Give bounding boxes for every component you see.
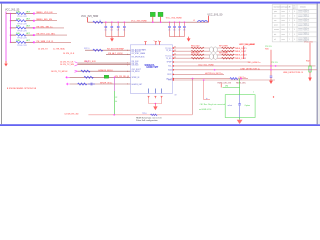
wire TMDS pair2a: [173, 54, 234, 56]
svg-text:ITE_SMB_CLK #5: ITE_SMB_CLK #5: [36, 41, 54, 43]
wire (row 2 net stub): [35, 20, 57, 22]
junction (bus row 1): [10, 13, 12, 15]
wire row C2 y=64.7: [78, 64, 131, 66]
svg-text:R22 0: R22 0: [84, 48, 90, 50]
junction (rail cap 6): [174, 21, 176, 23]
svg-text:43: 43: [174, 50, 176, 52]
wire (row 2 right lead): [25, 20, 33, 22]
net-tie NT2 (green): [158, 12, 163, 22]
choke T1 winding right: [214, 47, 218, 52]
svg-text:14 I2S_CLK: 14 I2S_CLK: [63, 53, 75, 55]
resistor R21 on rail: [93, 21, 103, 23]
svg-text:conn: conn: [282, 29, 285, 31]
IC U1 box (HDMI transmitter): [130, 45, 172, 94]
wire (row 5 left lead): [11, 41, 17, 43]
capacitor C4 104: [123, 22, 126, 36]
junction (x=203.7 HPD row): [203, 79, 205, 81]
wire vertical x=245.7 (5V pull-up): [243, 46, 245, 59]
capacitor C8 104: [183, 22, 186, 36]
svg-text:TMDS_D1+ 8: TMDS_D1+ 8: [235, 55, 248, 57]
svg-text:4k: 4k: [115, 101, 117, 103]
svg-text:conn: conn: [282, 20, 285, 22]
wire row E y=77.3: [70, 76, 131, 78]
junction (x=271 SCL row): [270, 65, 272, 67]
bus entry bracket (row D): [75, 70, 78, 72]
svg-text:1: 1: [253, 91, 254, 93]
power bus vertical wire (left, x=10.5): [10, 14, 12, 43]
svg-text:aux: aux: [274, 20, 277, 22]
wire vertical x=271: [270, 50, 272, 76]
svg-text:1: 1: [289, 11, 290, 13]
svg-text:spare: spare: [274, 24, 278, 27]
resistor R24 (row E): [84, 76, 93, 78]
wire green horizontal y=87.5: [223, 87, 240, 89]
svg-text:LINE_DETECTOR 1a: LINE_DETECTOR 1a: [240, 68, 260, 70]
svg-text:5V0_HDMI 1a: 5V0_HDMI 1a: [248, 62, 261, 64]
resistor RP2a term: [222, 54, 235, 56]
svg-text:RN2 0402: RN2 0402: [191, 52, 200, 54]
svg-text:res: res: [293, 5, 295, 8]
wire (U1 bottom ground U-link): [149, 98, 162, 103]
power arrow (far right down): [308, 78, 312, 82]
svg-text:14 I2S_TX_MCLK: 14 I2S_TX_MCLK: [51, 71, 68, 73]
svg-text:1: 1: [289, 39, 290, 41]
junction (row E x=114.5): [114, 77, 116, 79]
svg-text:alt: alt: [274, 38, 276, 41]
pin dot (CEC): [173, 78, 174, 79]
svg-text:mod name: mod name: [274, 7, 281, 9]
svg-text:PANEL_VDD_EN: PANEL_VDD_EN: [36, 11, 53, 14]
wire (option box to ground): [239, 118, 241, 120]
wire TMDS pair2b: [173, 57, 234, 59]
wire (cap group bottom rail): [106, 36, 125, 38]
svg-text:CEC Res: Ring if not connected: CEC Res: Ring if not connected: [200, 103, 225, 106]
svg-text:HDMI TMT: HDMI TMT: [147, 66, 159, 69]
svg-text:0: 0: [294, 34, 295, 36]
ground arrow (left bus bottom): [4, 61, 8, 66]
svg-text:SCL: SCL: [168, 66, 171, 68]
svg-text:5: 5: [244, 55, 245, 57]
wire RST row y=74.4: [173, 73, 224, 75]
junction (x=271 SDA row): [270, 69, 272, 71]
svg-text:ITE_RST_LCD_BKL: ITE_RST_LCD_BKL: [36, 34, 56, 36]
pin dot (HPD): [173, 79, 174, 80]
junction (bus row 4): [10, 34, 12, 36]
wire SPDIF row y=62: [173, 61, 250, 63]
choke T2 winding right: [214, 54, 218, 60]
svg-text:TMDS_D2+ 5: TMDS_D2+ 5: [235, 48, 248, 50]
svg-text:C6: C6: [173, 30, 175, 32]
svg-text:I2S_RX_SD #4: I2S_RX_SD #4: [115, 76, 130, 78]
svg-text:conn type: conn type: [281, 6, 288, 9]
net-tie NT3 (row E green): [104, 75, 109, 78]
arrow (row F input): [67, 83, 71, 85]
bus entry bracket (row C): [75, 62, 78, 66]
svg-text:conn: conn: [282, 39, 285, 41]
resistor R15: [16, 41, 26, 43]
wire (row 3 right lead): [25, 27, 33, 29]
svg-text:dflt: dflt: [289, 6, 292, 9]
pin stub (U1 top x=145.5): [144, 42, 146, 45]
pin dot (pair1a): [173, 47, 174, 48]
pin stub (U1 bottom outside x=161.6): [161, 96, 163, 98]
svg-text:RN1 0402: RN1 0402: [191, 45, 200, 47]
pin stub (U1 bottom outside x=148.6): [148, 96, 150, 98]
svg-text:19: 19: [175, 95, 177, 97]
net label block (row C, two lines): [60, 61, 74, 65]
capacitor C6 104: [173, 22, 176, 36]
pin square (row 3): [33, 27, 35, 29]
revision table remarks text (blue): [298, 9, 310, 43]
wire (rail right riser): [208, 16, 210, 22]
wire vertical x=221.2 (CEC RX): [220, 84, 222, 88]
svg-text:uchst: uchst: [228, 104, 233, 107]
pin stub (U1 bottom outside x=155.4): [154, 96, 156, 98]
resistor R13: [16, 27, 26, 29]
wire I2C SDA row y=69.8: [173, 69, 317, 71]
svg-text:4K7: 4K7: [26, 26, 30, 28]
svg-text:L1: L1: [193, 20, 195, 22]
wire (row 2 left lead): [11, 20, 17, 22]
sheet right margin shading: [318, 4, 320, 125]
capacitor C9 (row F): [88, 83, 95, 86]
svg-text:I2S_MCLK: I2S_MCLK: [132, 71, 141, 73]
junction (ground U-link): [155, 103, 157, 105]
wire (CEC after resistor): [238, 78, 248, 80]
svg-text:C7: C7: [178, 30, 180, 32]
svg-text:LINE_DETECTION #4: LINE_DETECTION #4: [283, 72, 304, 74]
svg-text:14 I2S_RX_SD: 14 I2S_RX_SD: [64, 114, 79, 116]
svg-text:I2S_ALT_LRCK: I2S_ALT_LRCK: [108, 52, 123, 55]
wire (row 3 left lead): [11, 27, 17, 29]
capacitor C2 104: [110, 22, 113, 36]
resistor RP1b term: [222, 50, 235, 52]
pin square (row 4): [33, 34, 35, 36]
pin dot (pair1b): [173, 51, 174, 52]
svg-text:42: 42: [174, 47, 176, 49]
junction (bus row 3): [10, 27, 12, 29]
svg-text:C3: C3: [117, 30, 119, 32]
svg-text:0: 0: [294, 39, 295, 41]
ground (cap group): [110, 37, 114, 42]
svg-text:remarks: remarks: [300, 6, 306, 9]
svg-text:I2C2_SCL_HDMI: I2C2_SCL_HDMI: [198, 65, 214, 67]
resistor RN2a series: [191, 54, 204, 56]
junction (SDA row x=214.6): [214, 69, 216, 71]
ground (cap group): [187, 37, 191, 42]
junction (rail cap 7): [179, 21, 181, 23]
junction (SCL row x=275.6): [275, 65, 277, 67]
svg-text:1: 1: [289, 34, 290, 36]
pin stub (U1 top x=159.6): [158, 42, 160, 45]
svg-text:conn: conn: [282, 11, 285, 13]
junction (bottom wire x=114.2): [113, 114, 115, 116]
wire (row 1 left lead): [11, 13, 17, 15]
svg-text:B I2S RECEIVER OPTION 1V8: B I2S RECEIVER OPTION 1V8: [7, 88, 37, 90]
svg-text:0: 0: [294, 11, 295, 13]
pin dot (RST): [173, 74, 174, 75]
svg-text:44: 44: [174, 54, 176, 56]
svg-text:VCC_3V3_S0: VCC_3V3_S0: [207, 13, 223, 16]
wire (row 5 net stub): [35, 41, 71, 43]
svg-text:conn: conn: [282, 34, 285, 36]
pin square (row 5): [33, 41, 35, 43]
wire vertical x=192.3 (HPD drop): [191, 79, 193, 115]
svg-text:v: v: [158, 40, 159, 42]
svg-text:C4: C4: [123, 30, 125, 32]
resistor RN1a series: [191, 47, 204, 49]
junction (tie 2): [160, 21, 162, 23]
svg-text:conn: conn: [282, 16, 285, 18]
arrow (row E input): [66, 76, 70, 78]
pin dot (pair2b): [173, 58, 174, 59]
ground (U1 bottom): [153, 104, 157, 111]
svg-text:5: 5: [244, 48, 245, 50]
svg-text:C2: C2: [110, 30, 112, 32]
svg-text:TX_D1-: TX_D1-: [166, 58, 172, 60]
resistor RN1b series: [191, 50, 204, 52]
pin dot (SDA): [173, 69, 174, 70]
svg-text:VCC_3V3_S5W: VCC_3V3_S5W: [81, 15, 99, 18]
power rail wire y=22.2: [88, 21, 209, 23]
revision table header text: [274, 5, 306, 10]
svg-text:tert: tert: [274, 33, 277, 36]
svg-text:HPD: HPD: [168, 80, 172, 82]
svg-text:C8: C8: [183, 30, 185, 32]
svg-text:14 I2S_TX_WS: 14 I2S_TX_WS: [60, 64, 74, 66]
choke T1 winding left: [210, 47, 214, 52]
svg-text:TX_D2-: TX_D2-: [166, 50, 172, 52]
svg-text:RST#: RST#: [167, 74, 171, 76]
svg-text:TP10: TP10: [142, 113, 147, 115]
wire CEC row y=78.6: [173, 78, 230, 80]
net-tie NT1 (green): [150, 12, 155, 22]
svg-text:RX_STBY_WAKE: RX_STBY_WAKE: [132, 52, 146, 55]
pin dot (SCL): [173, 65, 174, 66]
wire (row 4 right lead): [25, 34, 33, 36]
resistor R30 (CEC): [230, 78, 238, 80]
svg-text:SPDIF_IN 1a: SPDIF_IN 1a: [100, 83, 113, 85]
wire HPD row y=80: [173, 79, 275, 81]
junction (CEC x=241): [240, 78, 242, 80]
svg-text:DNI: DNI: [225, 86, 229, 88]
svg-text:1: 1: [289, 16, 290, 18]
pin stub (U1 top x=155.8): [155, 42, 157, 45]
svg-text:Option: Option: [245, 104, 251, 107]
svg-text:tp: tp: [206, 97, 208, 100]
svg-text:R32: R32: [306, 61, 309, 63]
wire row C1 y=63.1: [78, 62, 131, 64]
pin stub (U1 bottom inside x=148.6): [148, 89, 150, 94]
svg-text:RX_BOOTSTRAP: RX_BOOTSTRAP: [107, 48, 124, 51]
svg-text:22: 22: [115, 97, 117, 99]
svg-text:0: 0: [294, 29, 295, 31]
wire TMDS pair1a: [173, 47, 234, 49]
capacitor C3 104: [117, 22, 120, 36]
svg-text:0: 0: [294, 25, 295, 27]
svg-text:SPDIF_IN: SPDIF_IN: [132, 77, 140, 79]
svg-text:pos: pos: [293, 7, 296, 9]
option box (green outline): [225, 95, 255, 118]
wire I2C SCL row y=65.9: [173, 65, 316, 67]
svg-text:14 I2S_TX: 14 I2S_TX: [38, 48, 48, 50]
svg-text:reserve: reserve: [274, 28, 279, 31]
svg-text:VCC_5V0_HDMI: VCC_5V0_HDMI: [166, 17, 182, 19]
note text (CEC res, two green lines): [199, 103, 225, 111]
wire row F y=84: [70, 83, 131, 85]
wire vertical x=203.7 (pink drop): [204, 80, 210, 100]
resistor R22: [93, 49, 103, 51]
junction (tie 1): [152, 21, 154, 23]
resistor RP2b term: [222, 57, 235, 59]
junction (far right SDA row): [309, 69, 311, 71]
fuse F1 (green, far right): [309, 66, 311, 72]
svg-text:27K 1%: 27K 1%: [271, 62, 278, 64]
resistor RP1a term: [222, 47, 235, 49]
svg-text:RX_SPDIF_MCK: RX_SPDIF_MCK: [132, 56, 146, 58]
svg-text:4K7: 4K7: [26, 19, 30, 21]
pin dot (SPDIF): [173, 61, 174, 62]
svg-text:RP1 49R9: RP1 49R9: [219, 45, 228, 47]
svg-text:SDA: SDA: [168, 69, 172, 72]
inductor L1 (ferrite bead): [197, 21, 207, 23]
svg-text:ITE_BKL_SEL 1a: ITE_BKL_SEL 1a: [36, 26, 53, 28]
junction (rail cap 2): [111, 21, 113, 23]
svg-text:1: 1: [289, 20, 290, 22]
power bus vertical wire (left, x=6): [5, 11, 7, 61]
svg-text:5: 5: [244, 58, 245, 60]
wire row D y=71.2: [78, 70, 131, 72]
revision table grid: [272, 5, 317, 42]
svg-text:C1: C1: [104, 30, 106, 32]
svg-text:4K7: 4K7: [26, 33, 30, 35]
svg-text:4K7: 4K7: [26, 11, 30, 13]
junction (rail cap 3): [117, 21, 119, 23]
wire (far right below fuse): [309, 72, 311, 78]
junction (bus row 5): [10, 42, 12, 44]
resistor R12: [16, 20, 26, 22]
svg-text:VCC_3V3_HDMI: VCC_3V3_HDMI: [131, 20, 147, 22]
svg-text:v: v: [154, 40, 155, 42]
svg-text:conn: conn: [282, 25, 285, 27]
capacitor C1 104: [104, 22, 107, 36]
svg-text:on HDMI & DVI: on HDMI & DVI: [199, 109, 212, 111]
wire (row 3 net stub): [35, 27, 64, 29]
wire green vertical into option box: [239, 79, 241, 95]
svg-text:45: 45: [174, 57, 176, 59]
capacitor C13 (right): [270, 76, 273, 81]
svg-text:1: 1: [289, 25, 290, 27]
junction (rail cap 8): [184, 21, 186, 23]
junction (rail cap 4): [124, 21, 126, 23]
wire bottom pink y=114.8: [88, 114, 192, 116]
resistor R25 (row F): [78, 83, 87, 85]
svg-text:HDMI_CEC: HDMI_CEC: [236, 82, 247, 84]
wire vertical x=310 (far right): [309, 43, 311, 66]
svg-text:PANEL_BKL_EN: PANEL_BKL_EN: [36, 18, 52, 21]
resistor R33 (bottom): [151, 114, 158, 116]
svg-text:C5: C5: [168, 30, 170, 32]
junction (CEC x=192.5): [192, 78, 194, 80]
wire (row 5 right lead): [25, 41, 33, 43]
resistor R11: [16, 13, 26, 15]
wire (row 4 left lead): [11, 34, 17, 36]
pin square (row 1): [33, 13, 35, 15]
wire vertical x=114.5 (row E drop): [114, 77, 116, 91]
pin stub (U1 bottom inside x=155.4): [154, 89, 156, 94]
svg-text:0: 0: [294, 16, 295, 18]
resistor R23 (row D): [81, 70, 90, 72]
svg-text:HDMI19_MCLK: HDMI19_MCLK: [98, 70, 113, 72]
svg-text:TP05 C1R: TP05 C1R: [17, 45, 27, 47]
wire (row 4 net stub): [35, 34, 67, 36]
capacitor C7 104: [178, 22, 181, 36]
junction (rail cap 5): [169, 21, 171, 23]
svg-text:sec: sec: [274, 16, 277, 18]
wire (row 1 right lead): [25, 13, 33, 15]
sheet frame left border: [1, 4, 2, 125]
wire bus tie at row1: [6, 13, 11, 15]
capacitor C5 104: [168, 22, 171, 36]
ref label U1 SII9022: [145, 64, 159, 69]
junction (bus row 2): [10, 20, 12, 22]
svg-text:1: 1: [289, 29, 290, 31]
svg-text:I2S_SD0: I2S_SD0: [132, 65, 139, 67]
svg-text:HOTPLUG_DET 1a: HOTPLUG_DET 1a: [205, 73, 223, 75]
wire vertical x=114.5 green segment: [114, 91, 116, 115]
resistor R14: [16, 34, 26, 36]
svg-text:HDMI19_DET: HDMI19_DET: [132, 84, 143, 86]
sheet frame right border: [317, 4, 318, 125]
wire TMDS pair1b: [173, 50, 234, 52]
wire (rail riser x=87.5): [87, 17, 89, 22]
wire row B y=54.3: [106, 53, 131, 55]
svg-text:VCC_5V0_HDMI: VCC_5V0_HDMI: [239, 44, 255, 46]
pin dot (pair2a): [173, 54, 174, 55]
pin square (row 2): [33, 20, 35, 22]
ground (option box): [237, 120, 243, 124]
svg-text:HDMI_CEC_RX: HDMI_CEC_RX: [218, 82, 232, 84]
svg-text:4K7: 4K7: [26, 40, 30, 42]
choke T2 winding left: [210, 54, 214, 60]
svg-text:prim: prim: [274, 10, 278, 13]
svg-text:Pulse 8x8 configuration: Pulse 8x8 configuration: [136, 119, 158, 122]
junction (rail cap 1): [105, 21, 107, 23]
svg-text:0: 0: [294, 20, 295, 22]
wire (row 1 net stub): [35, 13, 57, 15]
pin stub (U1 bottom inside x=161.6): [161, 89, 163, 94]
svg-text:R31: R31: [265, 49, 268, 51]
svg-text:SPDIF: SPDIF: [167, 62, 172, 64]
capacitor C12 (inside option box): [238, 95, 241, 118]
revision table cell text: [274, 10, 295, 41]
junction dot (right of option box): [273, 96, 274, 97]
resistor RN2b series: [191, 57, 204, 59]
svg-text:5: 5: [244, 51, 245, 53]
svg-text:1a ITE_SDA: 1a ITE_SDA: [53, 47, 65, 50]
sheet frame top border: [0, 2, 320, 4]
svg-text:I2S_TX_SCK: I2S_TX_SCK: [84, 61, 97, 63]
sheet frame bottom border: [0, 124, 320, 126]
svg-text:RP2 49R9: RP2 49R9: [219, 52, 228, 54]
wire (cap group bottom rail): [170, 36, 185, 38]
ground (right C13): [269, 81, 273, 84]
wire row A y=50.2: [85, 49, 131, 51]
